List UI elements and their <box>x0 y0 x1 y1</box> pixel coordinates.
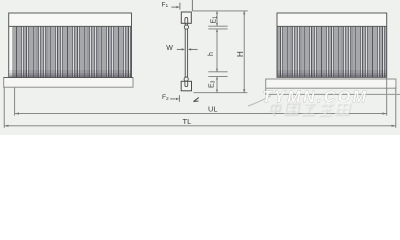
left block channel separator <box>9 25 132 27</box>
F2 corner arrow <box>193 98 198 102</box>
F1 tick <box>179 3 181 10</box>
watermark swoosh <box>248 96 271 107</box>
h dimension line <box>216 29 218 72</box>
right block body <box>277 13 387 77</box>
svg-text:W: W <box>166 45 173 52</box>
watermark CJK ghost glyphs <box>269 102 351 116</box>
E1 dimension line <box>216 11 218 26</box>
left block hatch (bristles) <box>13 27 131 77</box>
svg-text:h: h <box>208 52 215 56</box>
H bottom reference line <box>194 92 248 94</box>
H top reference line <box>192 10 247 12</box>
F1 right extension line <box>191 0 193 11</box>
UL dimension line <box>15 113 387 115</box>
right block bottom rail band <box>266 79 396 88</box>
F1 arrow <box>171 6 177 8</box>
svg-text:H: H <box>236 51 245 57</box>
F2 tick <box>178 95 180 102</box>
svg-text:UL: UL <box>208 105 218 114</box>
TL right extension <box>395 87 397 128</box>
H dimension line <box>243 11 245 93</box>
TL dimension line <box>4 125 396 127</box>
center bottom slot <box>185 81 188 86</box>
watermark underline corner <box>266 88 400 94</box>
W left arrow <box>177 48 182 50</box>
left block dark bottom band <box>9 70 131 77</box>
svg-text:E3: E3 <box>209 80 217 88</box>
center bottom end-cap rect <box>181 81 191 91</box>
svg-text:TL: TL <box>183 117 192 126</box>
center bottom bead circle <box>184 77 188 81</box>
E3 dimension line <box>216 76 218 92</box>
W right arrow <box>188 48 191 50</box>
UL left extension <box>14 88 16 116</box>
center section strip (double line) <box>185 23 187 77</box>
left block bottom rail band <box>4 78 133 88</box>
svg-text:E1: E1 <box>211 16 219 24</box>
TL left extension <box>3 87 5 128</box>
right block hatch (bristles) <box>278 27 387 77</box>
h lower extension pair <box>208 72 227 77</box>
center top end-cap rect <box>181 12 191 23</box>
left block body <box>9 13 132 77</box>
right block channel separator <box>277 25 387 27</box>
right block dark bottom band <box>278 70 387 77</box>
F2 arrow <box>170 98 176 100</box>
center top slot <box>185 17 188 23</box>
svg-text:TYMN.COM: TYMN.COM <box>262 89 368 106</box>
E1 lower extension pair <box>208 26 227 29</box>
UL right extension <box>386 78 388 116</box>
center top bead circle <box>184 25 188 29</box>
